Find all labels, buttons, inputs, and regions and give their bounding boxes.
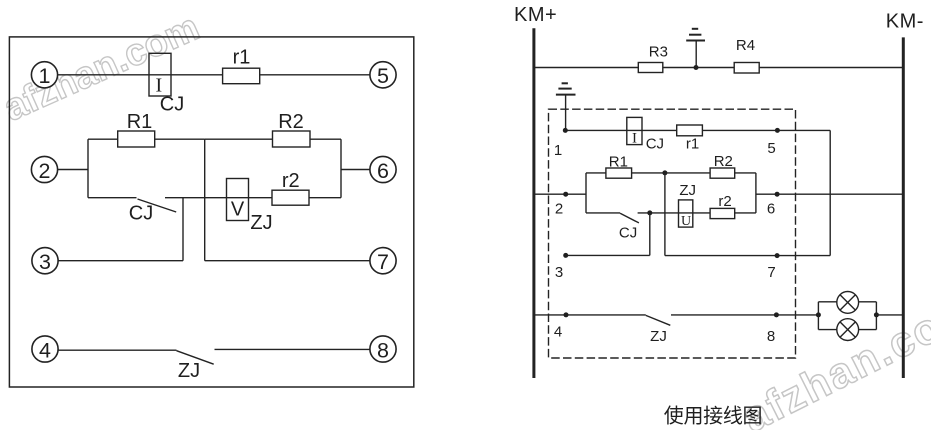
contact CJ blade [138, 199, 177, 212]
resistor R1 [606, 168, 632, 178]
wire terminal6 stub [341, 169, 370, 171]
lamp top [837, 292, 859, 314]
wire node3 vertical [649, 213, 651, 256]
svg-text:7: 7 [767, 264, 775, 281]
svg-text:R4: R4 [736, 37, 755, 54]
svg-text:ZJ: ZJ [679, 182, 696, 199]
wire terminal4 row [58, 349, 176, 351]
terminal 3 [32, 248, 58, 274]
junction dot lamps left [816, 312, 821, 317]
watermark top-left [0, 6, 206, 129]
junction dot node 5 [775, 128, 780, 133]
wire R1 top branch [586, 172, 665, 174]
wire node3 vertical [182, 198, 184, 261]
svg-text:R2: R2 [278, 111, 304, 133]
coil ZJ voltage coil box V [227, 179, 249, 221]
svg-text:7: 7 [377, 250, 389, 274]
svg-text:CJ: CJ [646, 136, 664, 153]
svg-text:8: 8 [767, 328, 775, 345]
contact ZJ blade [177, 351, 214, 365]
terminal 8 [370, 336, 396, 362]
left diagram outer frame [9, 37, 413, 387]
ground top [686, 29, 705, 68]
svg-text:3: 3 [555, 264, 563, 281]
svg-text:8: 8 [377, 339, 389, 363]
wire r2 to right vertical [735, 212, 756, 214]
coil CJ current coil box [627, 117, 642, 144]
rail KM+ [532, 28, 535, 378]
wire block2 left vertical [204, 139, 206, 261]
svg-text:2: 2 [555, 201, 563, 218]
svg-text:KM-: KM- [886, 10, 924, 32]
resistor R2 [710, 168, 735, 178]
wire terminal8 row [215, 348, 370, 350]
svg-text:CJ: CJ [160, 94, 184, 116]
ground left [556, 83, 576, 130]
junction dot R3-R4 [694, 65, 699, 70]
junction dot contact output [647, 210, 652, 215]
terminal 2 [31, 156, 57, 182]
svg-text:r2: r2 [282, 170, 300, 192]
junction dot lamps right [874, 312, 879, 317]
wire terminal7 row [205, 260, 370, 262]
wire node7 vertical [664, 173, 666, 256]
resistor r2 [272, 190, 309, 205]
svg-text:KM+: KM+ [514, 4, 557, 26]
junction dot node 6 [775, 192, 780, 197]
contact CJ fixed side [88, 197, 137, 199]
resistor r1 [677, 125, 703, 136]
wire node4 row [534, 314, 646, 316]
svg-text:ZJ: ZJ [250, 212, 272, 234]
svg-text:4: 4 [39, 339, 51, 363]
svg-text:R1: R1 [127, 111, 153, 133]
svg-text:5: 5 [767, 140, 775, 157]
svg-text:I: I [632, 131, 637, 147]
svg-text:CJ: CJ [619, 225, 637, 242]
wire R1 top branch [88, 138, 205, 140]
wire left vertical of R1 block [87, 139, 89, 198]
svg-text:R3: R3 [649, 44, 668, 61]
wire terminal1 row [58, 74, 370, 76]
svg-text:4: 4 [554, 324, 562, 341]
terminal 4 [32, 336, 58, 362]
wire R2 top branch [205, 138, 341, 140]
svg-text:2: 2 [39, 159, 51, 183]
coil ZJ box U [679, 200, 693, 227]
svg-text:3: 3 [39, 250, 51, 274]
svg-text:CJ: CJ [129, 203, 153, 225]
svg-text:6: 6 [767, 201, 775, 218]
wire R2 branch [665, 172, 756, 174]
terminal 5 [370, 62, 396, 88]
svg-text:V: V [231, 199, 245, 221]
watermark bottom-right [735, 284, 931, 430]
svg-text:U: U [681, 214, 691, 229]
wire node3 row [566, 254, 650, 256]
resistor r1 [223, 68, 260, 84]
junction dot node 2 [563, 192, 568, 197]
wire lamp bottom branch [818, 329, 876, 331]
contact CJ blade [620, 213, 639, 223]
wire lamps to KM- [876, 314, 903, 316]
svg-text:R1: R1 [609, 154, 628, 171]
resistor R1 [118, 131, 155, 147]
svg-text:5: 5 [377, 64, 389, 88]
wire node6 row [756, 193, 903, 195]
wire node7 row [665, 255, 830, 257]
wire node1 row [565, 129, 830, 131]
svg-text:afzhan.com: afzhan.com [735, 284, 931, 430]
junction dot R1-R2 [662, 170, 667, 175]
wire lamp block right vertical [875, 302, 877, 330]
svg-text:r2: r2 [718, 193, 731, 210]
junction dot node 1 [563, 128, 568, 133]
wire R3 R4 row [534, 67, 903, 69]
svg-text:ZJ: ZJ [178, 360, 200, 382]
lamp bottom [837, 319, 859, 341]
wire node2 stub [534, 193, 586, 195]
wire lamp top branch [818, 301, 876, 303]
svg-text:R2: R2 [714, 153, 733, 170]
dashed relay box [549, 109, 796, 358]
terminal 7 [370, 248, 396, 274]
wire r2 to right vertical [309, 197, 341, 199]
contact ZJ blade [646, 315, 671, 325]
resistor R4 [734, 63, 759, 74]
svg-text:r1: r1 [233, 47, 251, 69]
resistor r2 [710, 208, 735, 218]
junction dot node 4 [564, 312, 569, 317]
wire lamp block left vertical [817, 302, 819, 330]
svg-text:1: 1 [39, 64, 51, 88]
wire R1 block left vertical [585, 173, 587, 213]
coil CJ current coil box [149, 53, 171, 96]
svg-text:1: 1 [554, 142, 562, 159]
svg-text:6: 6 [377, 159, 389, 183]
resistor R2 [273, 131, 311, 147]
wire contact output row [165, 197, 272, 199]
wire block2 right vertical [340, 139, 342, 198]
wire contact output [638, 212, 711, 214]
terminal 1 [31, 62, 57, 88]
wire node8 row [671, 314, 818, 316]
resistor R3 [638, 63, 663, 73]
contact CJ fixed side [586, 212, 620, 214]
wire terminal2 stub [58, 169, 88, 171]
svg-text:ZJ: ZJ [650, 328, 667, 345]
wire node5 right vertical [829, 130, 831, 255]
wire terminal3 row [58, 260, 183, 262]
junction dot node 8 [774, 312, 779, 317]
wire R2 block right vertical [755, 173, 757, 213]
svg-text:使用接线图: 使用接线图 [664, 405, 763, 428]
svg-text:r1: r1 [686, 136, 699, 153]
junction dot node 3 [563, 253, 568, 258]
terminal 6 [370, 156, 396, 182]
rail KM- [902, 37, 905, 378]
junction dot node 7 [775, 253, 780, 258]
